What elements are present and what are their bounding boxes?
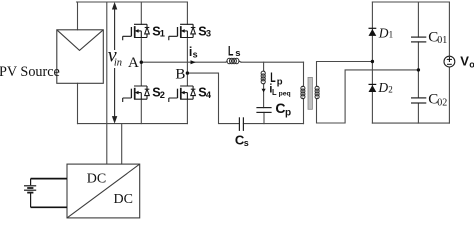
wire battery to DC/DC converter <box>31 179 67 208</box>
transistor S3 <box>169 24 196 40</box>
wire rectifier top bus <box>372 1 449 3</box>
capacitor Cp <box>256 108 271 113</box>
svg-text:L: L <box>272 87 277 97</box>
svg-text:D: D <box>377 80 388 95</box>
svg-text:2: 2 <box>388 84 393 94</box>
wire PV source top lead <box>77 2 79 30</box>
wire PV source bottom lead <box>77 83 79 123</box>
battery <box>24 179 36 208</box>
svg-text:D: D <box>378 25 389 40</box>
transistor S1 <box>123 24 150 40</box>
transformer T1 core <box>308 77 312 109</box>
wire Ls to transformer primary top <box>241 61 303 63</box>
wire transformer secondary bottom to capacitor midpoint <box>317 70 419 123</box>
capacitor C02 <box>411 98 426 103</box>
svg-text:in: in <box>114 58 122 69</box>
svg-text:DC: DC <box>87 172 106 187</box>
wire bottom bus tap to DC/DC converter (right) <box>121 124 123 164</box>
svg-text:B: B <box>175 66 185 82</box>
node capacitor midpoint <box>417 68 420 71</box>
wire rectifier bottom rail <box>372 122 449 124</box>
inductor Ls <box>226 58 242 64</box>
svg-text:V: V <box>460 54 469 69</box>
diode D2 <box>369 84 377 92</box>
PV source panel <box>57 30 104 84</box>
wire transformer primary vertical <box>303 62 305 123</box>
transistor S4 <box>169 86 196 102</box>
source Vo circle <box>444 56 455 67</box>
svg-text:02: 02 <box>437 98 447 109</box>
wire top bus (inverter) <box>77 1 188 3</box>
wire Lp/Cp branch top connection <box>263 62 265 70</box>
transformer T1 secondary winding <box>315 86 319 99</box>
wire transformer secondary top to diode junction <box>317 62 373 87</box>
svg-text:2: 2 <box>160 90 165 100</box>
wire leg 2 (S3/S4) <box>186 2 188 124</box>
svg-text:1: 1 <box>160 29 165 39</box>
node A <box>140 61 143 64</box>
svg-text:p: p <box>285 108 291 119</box>
node diode junction <box>371 60 374 63</box>
diode D1 <box>369 28 377 36</box>
current arrow i_Lpeq <box>262 89 266 93</box>
wire Lp to Cp <box>263 84 265 107</box>
svg-text:3: 3 <box>206 29 211 39</box>
inductor Lp <box>261 71 265 85</box>
wire capacitor column C01/C02 <box>417 2 419 123</box>
svg-text:s: s <box>235 48 240 59</box>
svg-text:01: 01 <box>437 35 447 46</box>
wire Cs to primary bottom <box>243 123 303 125</box>
transistor S2 <box>123 86 150 102</box>
svg-text:s: s <box>193 49 198 59</box>
wire Cp bottom lead <box>263 112 265 123</box>
capacitor Cs <box>239 117 243 131</box>
capacitor C01 <box>411 37 426 42</box>
wire DC-link tap to DC/DC converter (left) <box>106 2 108 164</box>
svg-text:p: p <box>277 77 283 88</box>
svg-text:L: L <box>228 43 234 59</box>
svg-text:PV Source: PV Source <box>0 64 60 80</box>
wire node B right and down to Cs <box>187 73 239 124</box>
svg-text:o: o <box>469 59 474 69</box>
wire leg 1 (S1/S2) <box>140 2 142 124</box>
wire output column Vo <box>448 2 450 123</box>
DC/DC converter box <box>67 164 140 218</box>
svg-text:L: L <box>270 69 276 85</box>
transformer T1 primary winding <box>301 86 305 99</box>
node B <box>186 71 189 74</box>
svg-text:s: s <box>244 138 249 148</box>
svg-text:4: 4 <box>206 90 212 100</box>
svg-text:A: A <box>128 55 139 71</box>
wire diode column <box>371 2 373 123</box>
svg-text:peq: peq <box>279 91 291 98</box>
v_in measurement arrow <box>114 7 116 118</box>
svg-text:DC: DC <box>114 192 133 207</box>
wire bottom bus (inverter) <box>78 123 188 125</box>
wire node A to Ls <box>141 61 225 63</box>
svg-text:C: C <box>275 100 285 116</box>
svg-text:1: 1 <box>389 30 394 40</box>
current arrow i_s <box>191 60 196 64</box>
